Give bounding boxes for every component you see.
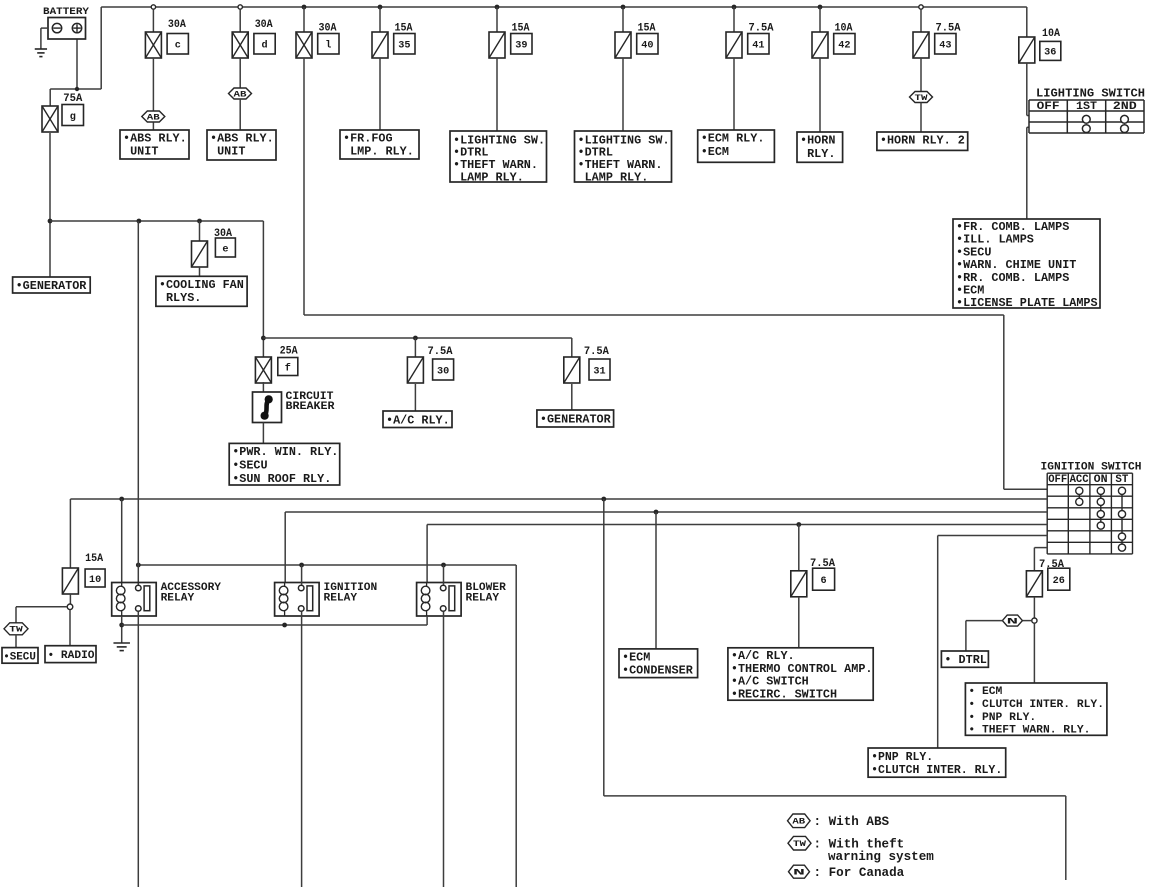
svg-text:•ECM: •ECM — [701, 145, 729, 159]
svg-text:RELAY: RELAY — [161, 592, 195, 604]
svg-text:d: d — [261, 40, 267, 52]
svg-text:e: e — [222, 244, 228, 255]
svg-text:35: 35 — [398, 41, 410, 52]
svg-text:40: 40 — [641, 41, 653, 52]
svg-text:RELAY: RELAY — [466, 592, 500, 604]
svg-text:: With ABS: : With ABS — [814, 815, 890, 829]
svg-text:UNIT: UNIT — [123, 145, 158, 159]
svg-text:LIGHTING SWITCH: LIGHTING SWITCH — [1036, 87, 1145, 101]
svg-text:•LICENSE PLATE LAMPS: •LICENSE PLATE LAMPS — [956, 296, 1098, 310]
svg-text:•CLUTCH INTER. RLY.: •CLUTCH INTER. RLY. — [871, 764, 1002, 777]
svg-text:7.5A: 7.5A — [584, 346, 609, 358]
svg-text:43: 43 — [939, 41, 951, 52]
svg-text:10A: 10A — [1042, 28, 1060, 40]
svg-text:•SUN ROOF RLY.: •SUN ROOF RLY. — [232, 472, 331, 486]
svg-text:LMP. RLY.: LMP. RLY. — [343, 145, 414, 159]
svg-text:TW: TW — [793, 840, 806, 849]
svg-text:: For Canada: : For Canada — [814, 866, 905, 880]
svg-text:•FR.FOG: •FR.FOG — [343, 132, 393, 146]
svg-text:•COOLING FAN: •COOLING FAN — [159, 278, 244, 292]
svg-text:7.5A: 7.5A — [428, 346, 453, 358]
svg-text:30A: 30A — [168, 19, 186, 31]
svg-text:• THEFT WARN. RLY.: • THEFT WARN. RLY. — [968, 725, 1090, 737]
svg-text:ON: ON — [1094, 474, 1108, 486]
svg-text:RLY.: RLY. — [800, 147, 835, 161]
svg-text:26: 26 — [1053, 576, 1065, 587]
svg-text:ACC: ACC — [1070, 474, 1090, 486]
svg-text:•RECIRC. SWITCH: •RECIRC. SWITCH — [731, 687, 837, 701]
svg-text:•ECM: •ECM — [622, 651, 650, 665]
svg-text:30A: 30A — [255, 19, 273, 31]
svg-text:f: f — [285, 362, 291, 374]
svg-text:LAMP RLY.: LAMP RLY. — [453, 171, 524, 185]
svg-text:warning system: warning system — [828, 850, 934, 864]
svg-text:•ABS RLY.: •ABS RLY. — [123, 132, 187, 146]
svg-text:•A/C RLY.: •A/C RLY. — [386, 414, 450, 428]
svg-text:LAMP RLY.: LAMP RLY. — [578, 171, 649, 185]
svg-text:30: 30 — [437, 366, 449, 377]
svg-text:AB: AB — [234, 90, 247, 99]
svg-text:31: 31 — [593, 366, 605, 377]
svg-text:•HORN RLY. 2: •HORN RLY. 2 — [880, 134, 965, 148]
svg-text:•GENERATOR: •GENERATOR — [540, 413, 612, 427]
svg-text:ST: ST — [1115, 474, 1129, 486]
svg-text:•HORN: •HORN — [800, 134, 835, 148]
svg-text:c: c — [175, 41, 181, 52]
svg-text:OFF: OFF — [1048, 474, 1067, 486]
svg-text:6: 6 — [821, 576, 827, 587]
svg-text:41: 41 — [752, 41, 764, 52]
svg-text:TW: TW — [9, 626, 23, 635]
svg-text:BREAKER: BREAKER — [286, 401, 335, 413]
svg-text:BATTERY: BATTERY — [43, 6, 90, 18]
svg-text:•GENERATOR: •GENERATOR — [16, 279, 88, 293]
svg-text:•SECU: •SECU — [232, 458, 267, 472]
svg-text:7.5A: 7.5A — [1039, 559, 1064, 571]
svg-text:N: N — [793, 869, 805, 878]
svg-text:•CONDENSER: •CONDENSER — [622, 664, 694, 678]
svg-text:•ECM RLY.: •ECM RLY. — [701, 132, 765, 146]
svg-text:• DTRL: • DTRL — [944, 653, 986, 667]
svg-text:g: g — [70, 112, 76, 123]
svg-text:75A: 75A — [63, 93, 82, 105]
svg-text:UNIT: UNIT — [210, 145, 245, 159]
svg-text:36: 36 — [1044, 48, 1056, 59]
svg-text:•PNP RLY.: •PNP RLY. — [871, 751, 933, 764]
svg-text:1ST: 1ST — [1076, 101, 1097, 113]
svg-text:l: l — [325, 40, 331, 52]
svg-text:• RADIO: • RADIO — [48, 650, 95, 662]
svg-text:TW: TW — [915, 94, 928, 103]
svg-text:OFF: OFF — [1037, 101, 1060, 113]
svg-text:IGNITION SWITCH: IGNITION SWITCH — [1041, 462, 1142, 474]
svg-text:N: N — [1007, 618, 1018, 627]
svg-text:• CLUTCH INTER. RLY.: • CLUTCH INTER. RLY. — [968, 699, 1104, 711]
svg-text:• PNP RLY.: • PNP RLY. — [968, 712, 1036, 724]
svg-text:25A: 25A — [280, 346, 298, 358]
svg-text:42: 42 — [838, 41, 850, 52]
svg-text:• ECM: • ECM — [968, 686, 1002, 698]
svg-text:2ND: 2ND — [1113, 101, 1137, 113]
svg-text:AB: AB — [792, 818, 805, 827]
svg-text:•PWR. WIN. RLY.: •PWR. WIN. RLY. — [232, 445, 338, 459]
svg-text:AB: AB — [147, 113, 160, 122]
svg-text:•SECU: •SECU — [3, 652, 36, 664]
svg-text:15A: 15A — [85, 553, 103, 565]
svg-text:10: 10 — [89, 575, 101, 586]
svg-text:39: 39 — [515, 41, 527, 52]
svg-text:RLYS.: RLYS. — [159, 291, 201, 305]
svg-text:RELAY: RELAY — [324, 592, 358, 604]
svg-text:•ABS RLY.: •ABS RLY. — [210, 132, 274, 146]
